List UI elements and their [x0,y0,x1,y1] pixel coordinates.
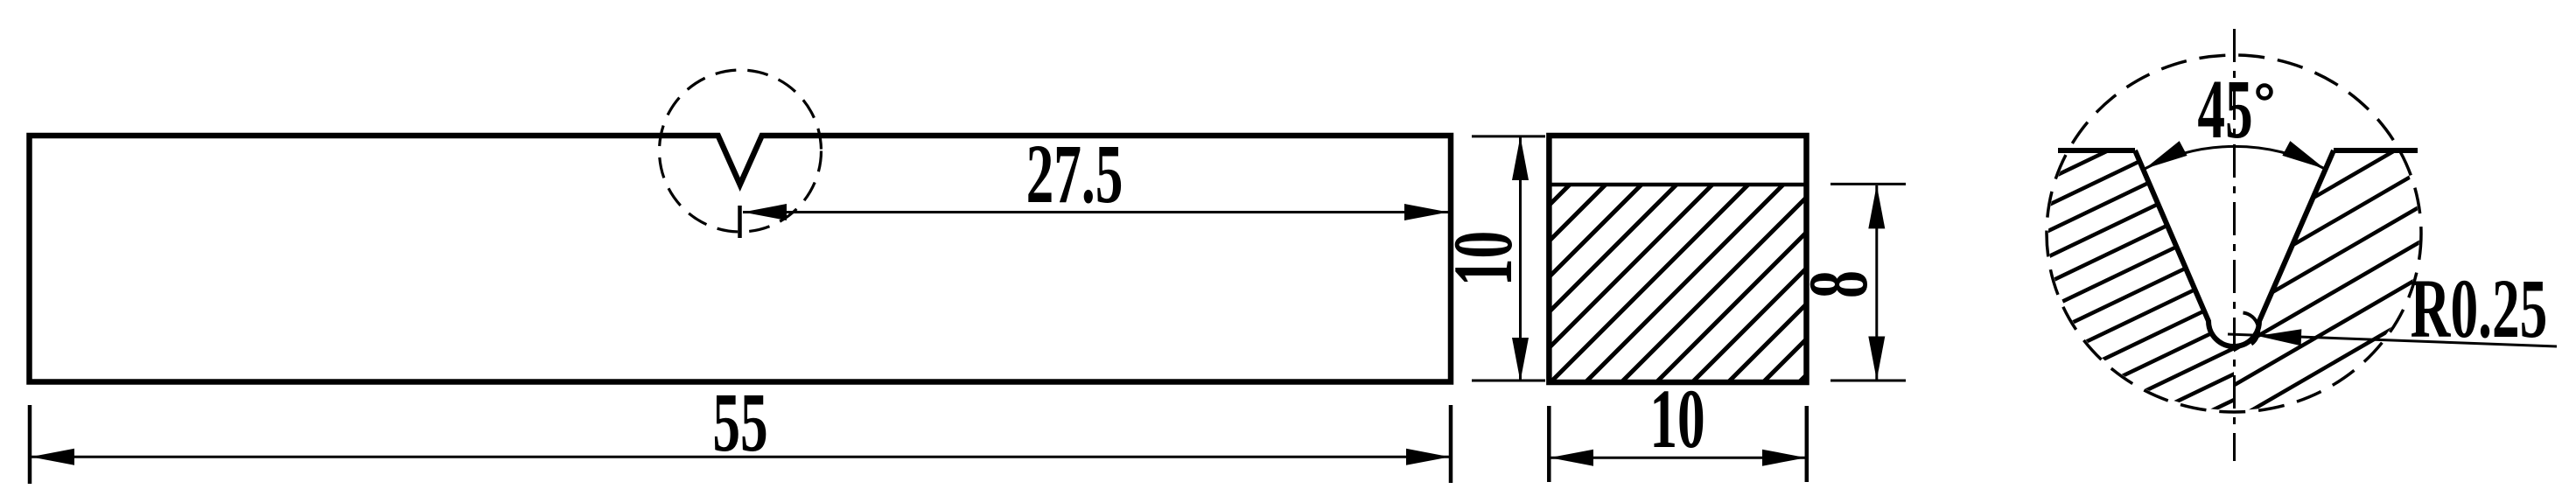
dimension 8: dimension line [1875,185,1878,380]
dimension 10 (width): right extension line [1805,406,1809,482]
detail V-notch profile [2135,150,2334,346]
R0.25 leader arrow [2257,328,2302,346]
detail view hatching left family (shallow angle) [2030,31,2441,498]
angle arc right arrow [2282,141,2328,176]
R0.25 leader line [2228,334,2557,346]
detail circle (dashed) around notch [660,70,822,232]
dimension 27.5: right arrow [1404,204,1448,220]
angle arc left arrow [2141,141,2187,176]
specimen side view outline with V-notch [30,136,1452,382]
dimension 10 (width): left arrow [1550,450,1593,466]
svg-text:8: 8 [1792,270,1885,298]
dimension 27.5: left arrow [743,204,787,220]
angle arc 45 deg [2145,146,2325,169]
dimension 55: right arrow [1406,449,1450,465]
dimension 10 (height): dimension line [1519,137,1522,381]
detail view dashed ellipse [2047,55,2421,412]
detail view hatching right family (steeper angle) [2222,88,2441,427]
dimension 10 (width): right arrow [1762,450,1806,466]
small radius arc at notch root [2243,313,2259,345]
detail surface line right segment [2334,148,2418,153]
svg-text:R0.25: R0.25 [2411,262,2548,355]
dimension 10 (height): top extension line [1472,135,1545,137]
cross-section inner line (top of hatched core) [1549,183,1806,187]
dimension 10 (height): bottom arrow [1512,338,1529,381]
svg-text:10: 10 [1437,231,1529,286]
dimension 27.5: dimension line [743,211,1448,213]
degree symbol of 45 deg label [2258,86,2271,99]
dimension 8: top arrow [1868,185,1885,228]
svg-text:55: 55 [712,376,767,469]
dimension 10 (width): dimension line [1550,457,1806,459]
svg-text:27.5: 27.5 [1026,128,1123,220]
dimension 8: top extension line [1830,183,1906,185]
cross-section hatching [1356,132,2049,398]
dimension 10 (height): bottom extension line [1472,380,1545,382]
dimension 10 (height): top arrow [1512,136,1529,180]
svg-text:45: 45 [2197,63,2252,156]
dimension 10 (width): left extension line [1547,406,1551,482]
dimension 55: left arrow [31,449,74,465]
detail centerline (dash-dot) [2233,29,2236,461]
dimension 8: bottom arrow [1868,337,1885,381]
svg-text:10: 10 [1649,373,1704,465]
dimension 55: dimension line [31,456,1450,458]
detail surface line left segment [2058,148,2135,153]
dimension 55: left extension line [28,405,32,484]
dimension 8: bottom extension line [1830,380,1906,382]
dimension 55: right extension line [1449,405,1453,483]
dimension 27.5: extension tick [738,206,742,238]
cross-section square outline [1549,136,1806,382]
